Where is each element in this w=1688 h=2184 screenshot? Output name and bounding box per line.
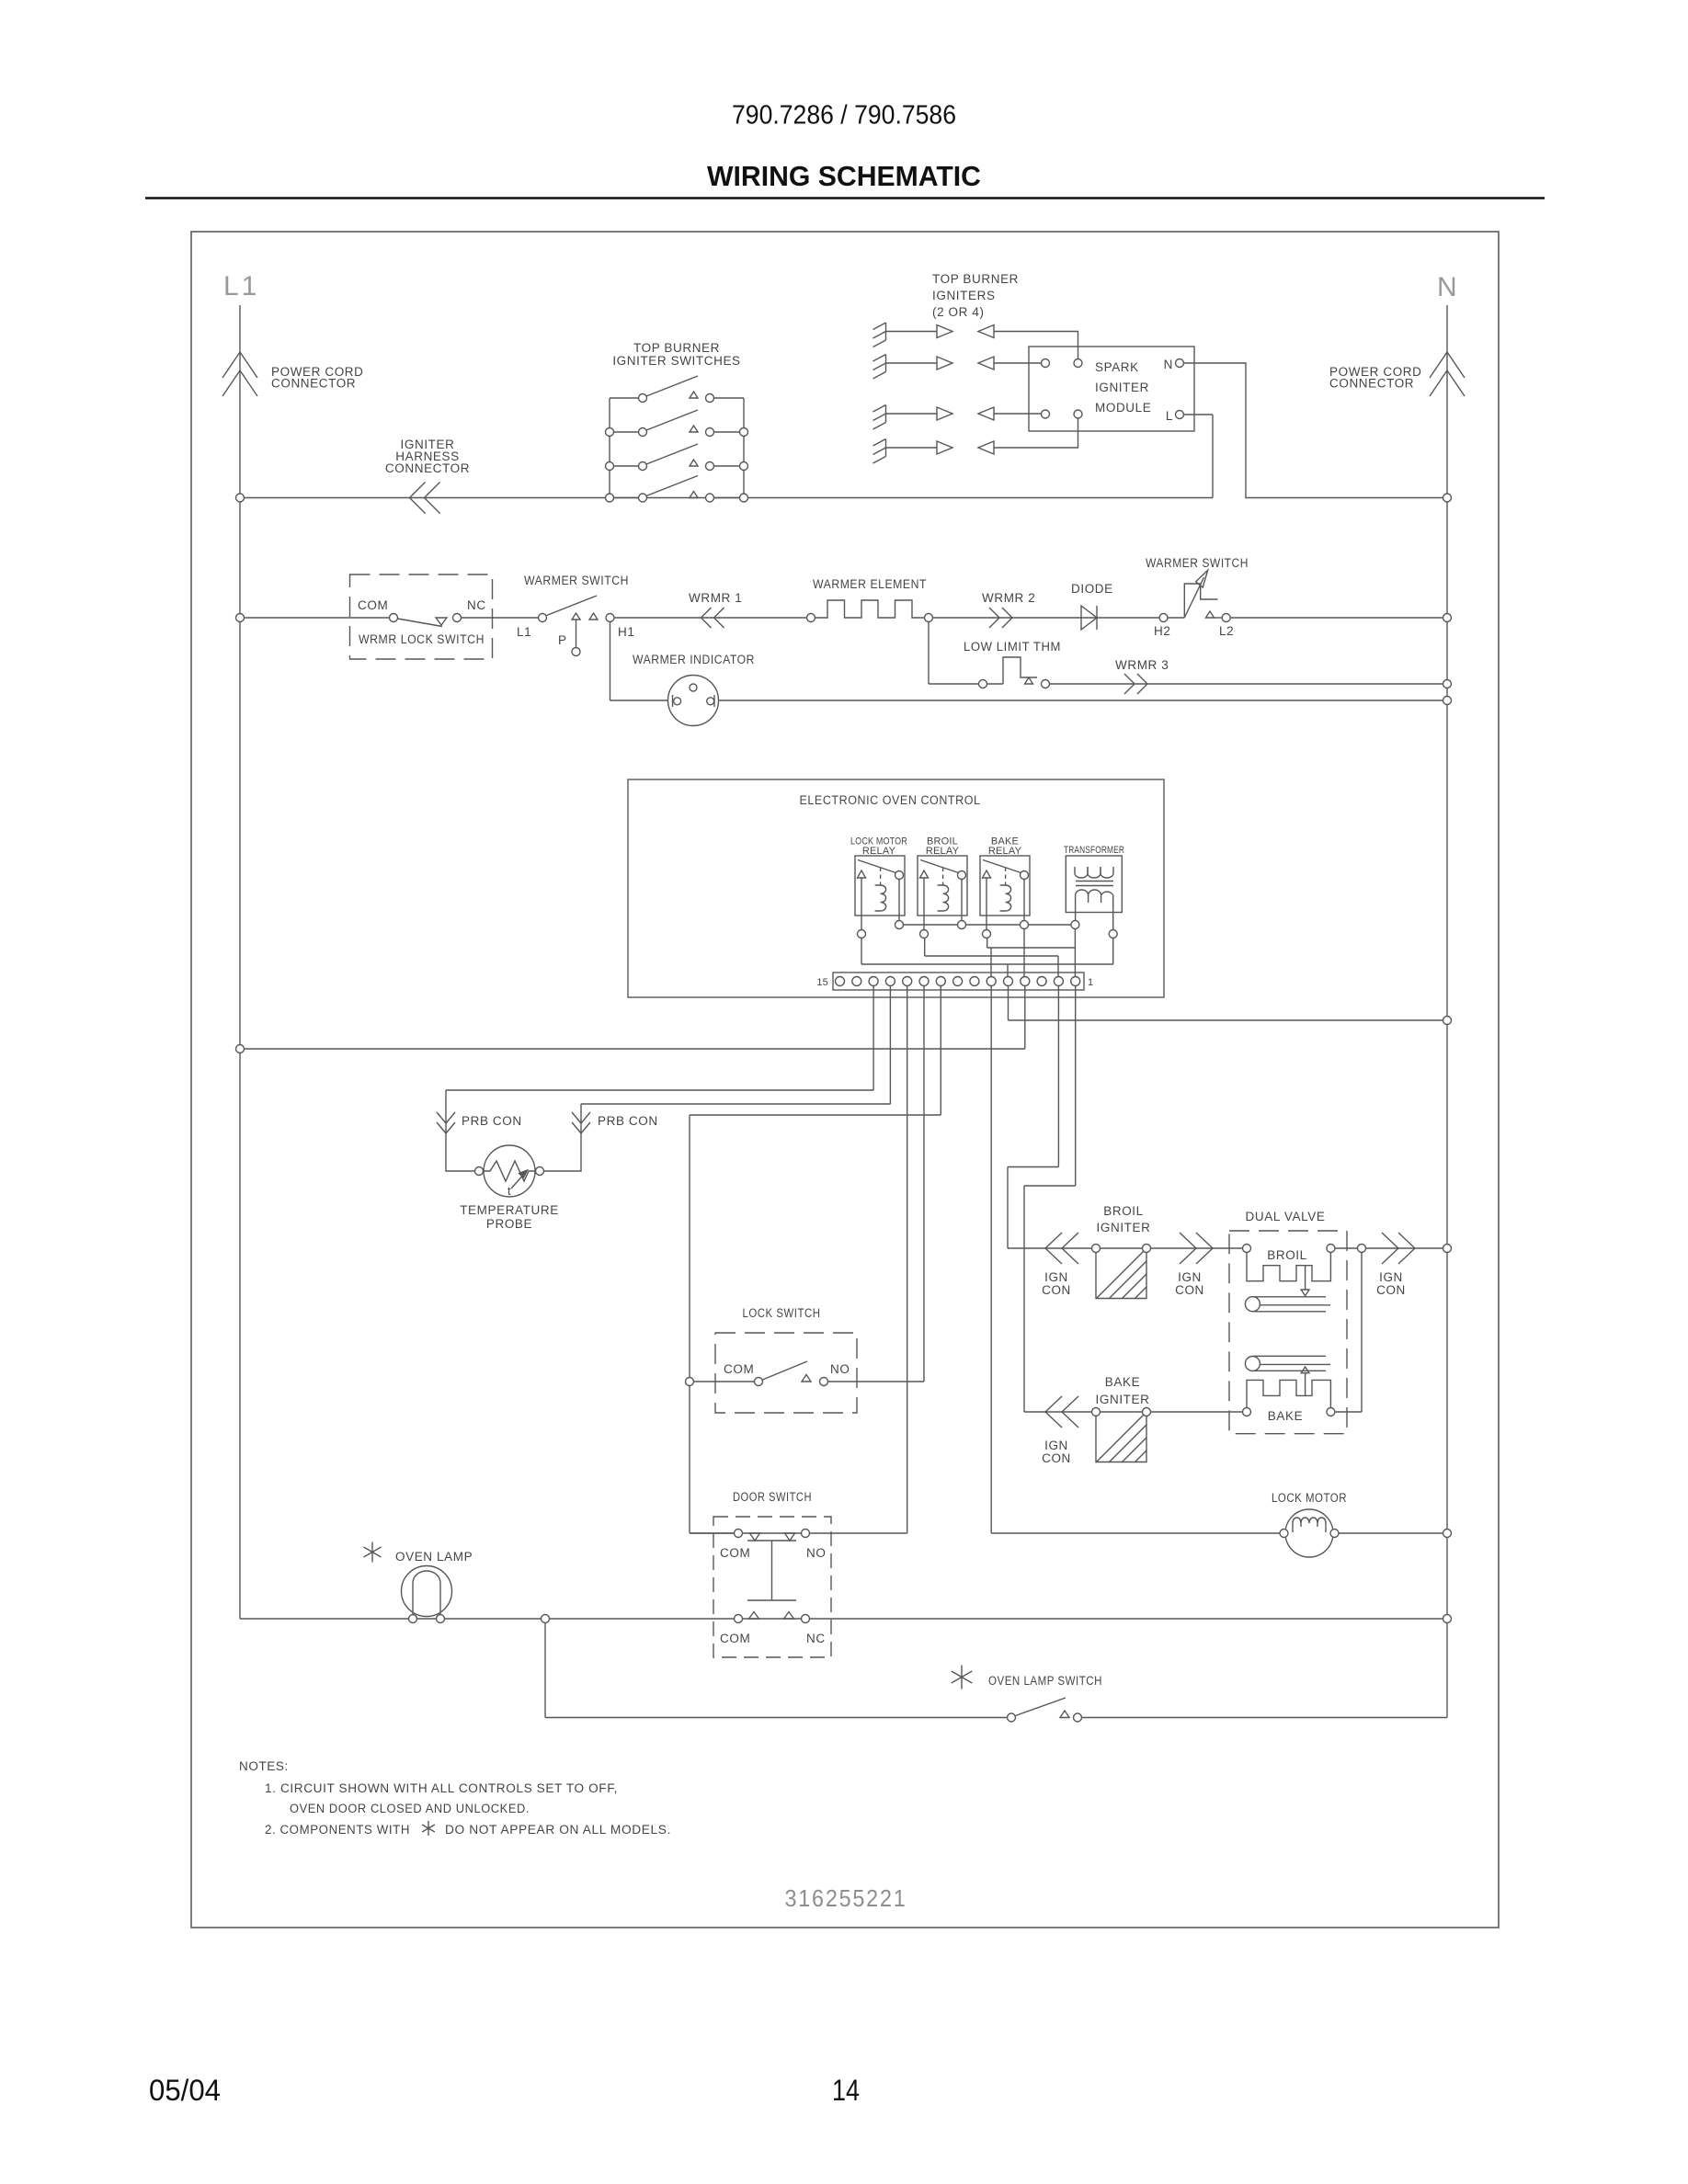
svg-text:COM: COM xyxy=(720,1546,750,1560)
svg-text:CON: CON xyxy=(1042,1451,1071,1465)
svg-text:TOP BURNER: TOP BURNER xyxy=(932,272,1019,286)
svg-text:PRB CON: PRB CON xyxy=(462,1114,522,1128)
svg-text:15: 15 xyxy=(816,977,828,988)
svg-text:H1: H1 xyxy=(618,625,634,639)
svg-text:IGNITER: IGNITER xyxy=(1095,381,1149,394)
svg-text:IGNITER: IGNITER xyxy=(1096,1393,1150,1406)
svg-text:2. COMPONENTS WITH: 2. COMPONENTS WITH xyxy=(265,1823,410,1837)
svg-text:PROBE: PROBE xyxy=(486,1217,532,1231)
svg-text:N: N xyxy=(1437,272,1457,302)
svg-text:TEMPERATURE: TEMPERATURE xyxy=(460,1203,559,1217)
svg-text:t: t xyxy=(508,1184,511,1198)
svg-text:WRMR 1: WRMR 1 xyxy=(689,591,742,605)
svg-text:BAKE: BAKE xyxy=(1105,1375,1140,1389)
svg-text:CON: CON xyxy=(1175,1283,1204,1297)
svg-text:WARMER SWITCH: WARMER SWITCH xyxy=(524,574,629,587)
svg-text:NOTES:: NOTES: xyxy=(239,1759,289,1773)
svg-text:DOOR SWITCH: DOOR SWITCH xyxy=(733,1490,812,1504)
svg-text:LOCK MOTOR: LOCK MOTOR xyxy=(1272,1491,1347,1505)
svg-text:NO: NO xyxy=(806,1546,826,1560)
svg-text:BAKE: BAKE xyxy=(1268,1409,1303,1423)
svg-text:316255221: 316255221 xyxy=(785,1884,907,1912)
svg-text:TOP BURNER: TOP BURNER xyxy=(633,341,720,355)
svg-text:WRMR 3: WRMR 3 xyxy=(1115,658,1169,672)
svg-text:COM: COM xyxy=(720,1632,750,1645)
svg-text:NC: NC xyxy=(467,598,486,612)
svg-text:NO: NO xyxy=(830,1362,850,1376)
svg-text:1. CIRCUIT SHOWN WITH ALL CON: 1. CIRCUIT SHOWN WITH ALL CONTROLS SET T… xyxy=(265,1781,618,1795)
svg-text:WIRING SCHEMATIC: WIRING SCHEMATIC xyxy=(707,160,981,192)
svg-text:1: 1 xyxy=(1088,977,1093,988)
svg-text:RELAY: RELAY xyxy=(926,846,960,857)
svg-text:IGNITERS: IGNITERS xyxy=(932,289,996,302)
svg-text:05/04: 05/04 xyxy=(149,2074,221,2107)
svg-text:ELECTRONIC OVEN CONTROL: ELECTRONIC OVEN CONTROL xyxy=(800,793,981,807)
svg-text:L1: L1 xyxy=(517,625,531,639)
svg-text:SPARK: SPARK xyxy=(1095,360,1139,374)
svg-text:MODULE: MODULE xyxy=(1095,401,1151,415)
svg-text:DIODE: DIODE xyxy=(1071,582,1113,596)
svg-text:WARMER ELEMENT: WARMER ELEMENT xyxy=(813,577,927,591)
svg-text:IGN: IGN xyxy=(1044,1270,1068,1284)
svg-text:CONNECTOR: CONNECTOR xyxy=(385,461,470,475)
svg-text:IGN: IGN xyxy=(1379,1270,1403,1284)
svg-text:N: N xyxy=(1164,358,1173,371)
svg-text:DUAL VALVE: DUAL VALVE xyxy=(1246,1210,1326,1223)
svg-text:P: P xyxy=(558,633,567,647)
svg-text:LOW LIMIT THM: LOW LIMIT THM xyxy=(964,640,1061,654)
svg-text:(2 OR 4): (2 OR 4) xyxy=(932,305,985,319)
svg-text:WARMER SWITCH: WARMER SWITCH xyxy=(1146,556,1249,570)
svg-text:WRMR 2: WRMR 2 xyxy=(982,591,1035,605)
svg-text:IGN: IGN xyxy=(1044,1439,1068,1452)
svg-text:14: 14 xyxy=(832,2074,860,2107)
svg-text:L2: L2 xyxy=(1219,624,1234,638)
svg-text:790.7286 / 790.7586: 790.7286 / 790.7586 xyxy=(732,101,956,131)
svg-text:CONNECTOR: CONNECTOR xyxy=(1329,377,1414,391)
svg-text:CON: CON xyxy=(1042,1283,1071,1297)
svg-text:OVEN LAMP: OVEN LAMP xyxy=(395,1550,473,1564)
svg-text:H2: H2 xyxy=(1154,624,1170,638)
svg-text:BROIL: BROIL xyxy=(1103,1204,1144,1218)
svg-text:L: L xyxy=(1166,409,1173,423)
svg-text:NC: NC xyxy=(806,1632,826,1645)
svg-text:RELAY: RELAY xyxy=(988,846,1022,857)
svg-text:OVEN DOOR CLOSED AND UNLOCKED.: OVEN DOOR CLOSED AND UNLOCKED. xyxy=(290,1802,530,1815)
svg-text:CONNECTOR: CONNECTOR xyxy=(271,377,356,391)
svg-text:LOCK SWITCH: LOCK SWITCH xyxy=(743,1306,821,1320)
svg-text:COM: COM xyxy=(358,598,388,612)
svg-text:CON: CON xyxy=(1376,1283,1406,1297)
svg-text:IGN: IGN xyxy=(1178,1270,1202,1284)
svg-text:OVEN LAMP SWITCH: OVEN LAMP SWITCH xyxy=(988,1674,1102,1688)
svg-text:BROIL: BROIL xyxy=(1267,1248,1307,1262)
svg-text:TRANSFORMER: TRANSFORMER xyxy=(1064,845,1124,856)
svg-text:IGNITER: IGNITER xyxy=(1097,1221,1151,1234)
svg-text:DO NOT APPEAR ON ALL MODELS.: DO NOT APPEAR ON ALL MODELS. xyxy=(445,1823,671,1837)
svg-text:WARMER INDICATOR: WARMER INDICATOR xyxy=(633,653,755,666)
svg-text:L1: L1 xyxy=(223,271,259,301)
svg-text:IGNITER SWITCHES: IGNITER SWITCHES xyxy=(612,354,740,368)
svg-text:COM: COM xyxy=(724,1362,754,1376)
svg-text:RELAY: RELAY xyxy=(862,846,896,857)
svg-text:PRB CON: PRB CON xyxy=(598,1114,658,1128)
svg-text:WRMR LOCK SWITCH: WRMR LOCK SWITCH xyxy=(359,632,485,646)
